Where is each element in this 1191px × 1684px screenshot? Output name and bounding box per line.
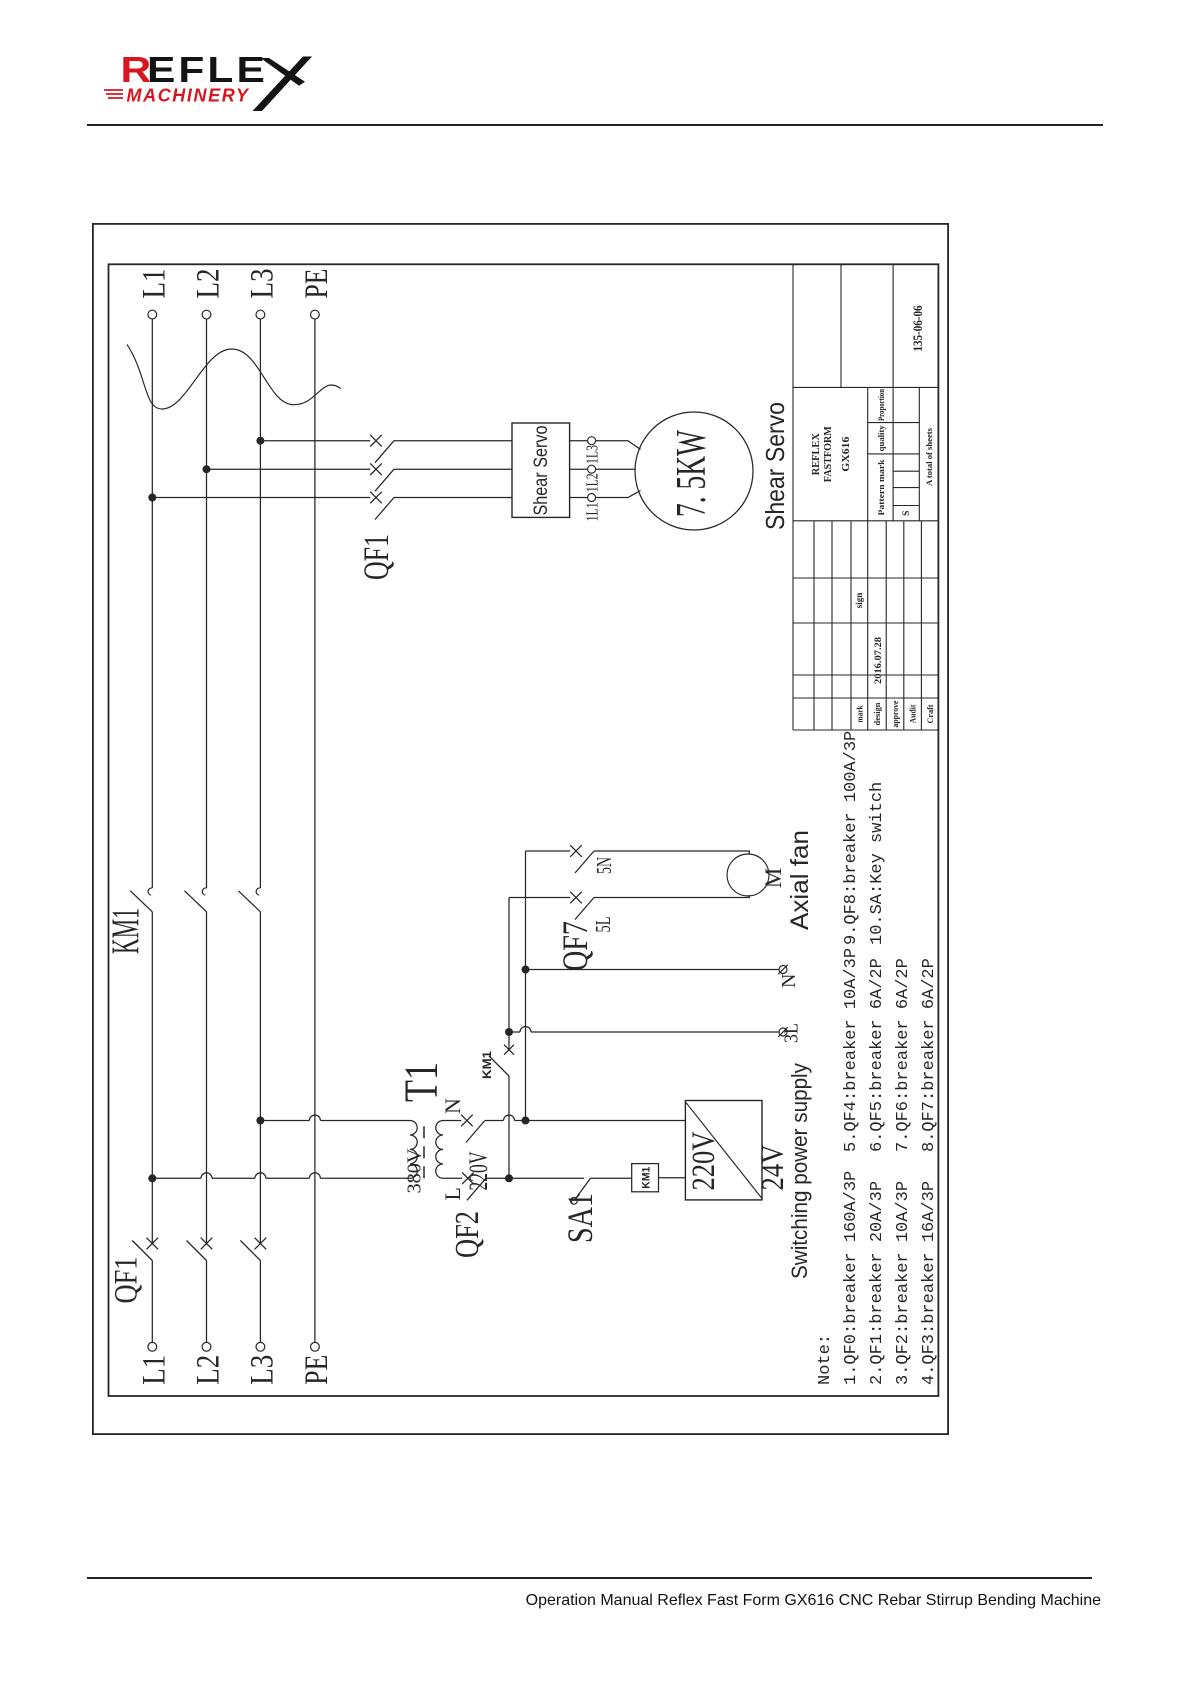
svg-text:Craft: Craft (925, 704, 935, 723)
supply cable wave break symbol (127, 345, 341, 410)
svg-text:L1: L1 (136, 269, 172, 299)
node tap T1 primary on L3 (256, 1117, 264, 1125)
svg-text:2.QF1:breaker 20A/3P: 2.QF1:breaker 20A/3P (868, 1181, 887, 1385)
wire box to ring 1L1 (570, 497, 588, 499)
left terminal L1 (148, 1342, 157, 1351)
wire 5L to fan (594, 895, 749, 898)
svg-text:5L: 5L (591, 917, 615, 933)
svg-text:mark: mark (855, 705, 865, 722)
svg-text:L3: L3 (244, 1355, 280, 1385)
svg-text:24V: 24V (754, 1145, 790, 1191)
node tap shear branch wire 1 (148, 494, 156, 502)
left terminal L3 (256, 1342, 265, 1351)
svg-text:Switching power supply: Switching power supply (787, 1063, 812, 1279)
breaker QF7 pole 5L (570, 892, 582, 904)
wire box to ring 1L2 (570, 468, 588, 470)
wire T1 primary right feed with hop (260, 1120, 309, 1122)
node N rail junction (522, 1117, 530, 1125)
terminal ring 1L1 (588, 494, 596, 502)
svg-text:1.QF0:breaker 160A/3P: 1.QF0:breaker 160A/3P (842, 1171, 861, 1385)
wire shear branch 2 to box (394, 468, 512, 470)
svg-text:220V: 220V (464, 1151, 493, 1190)
svg-text:4.QF3:breaker 16A/3P: 4.QF3:breaker 16A/3P (920, 1181, 939, 1385)
svg-text:7. 5KW: 7. 5KW (669, 430, 715, 517)
svg-text:380V: 380V (404, 1148, 426, 1194)
logo speed lines (104, 90, 123, 98)
wire SA1 upper (509, 1177, 584, 1179)
svg-text:L: L (440, 1187, 465, 1200)
left terminal L2 (202, 1342, 211, 1351)
svg-text:1L3: 1L3 (583, 445, 602, 464)
wire T1 secondary left to QF2 (443, 1177, 462, 1179)
svg-text:Shear Servo: Shear Servo (760, 402, 790, 530)
wire SA1 to KM1 coil (591, 1177, 632, 1179)
contactor KM1 pole L3 (238, 891, 260, 912)
box Shear Servo drive (512, 423, 570, 517)
svg-text:5.QF4:breaker 10A/3P: 5.QF4:breaker 10A/3P (842, 948, 861, 1152)
svg-text:7.QF6:breaker 6A/2P: 7.QF6:breaker 6A/2P (894, 958, 913, 1152)
svg-text:A total of sheets: A total of sheets (924, 427, 934, 486)
node 3L tap (505, 1028, 513, 1036)
wire 5N to fan (594, 851, 749, 854)
right terminal L1 (148, 310, 157, 319)
svg-text:MACHINERY: MACHINERY (127, 86, 250, 106)
node L rail junction (505, 1174, 513, 1182)
svg-text:220V: 220V (686, 1131, 722, 1190)
breaker QF1 pole shear 3 (370, 435, 382, 447)
wire shear branch 3 to box (394, 440, 512, 442)
wire L rail left segment (508, 1076, 510, 1178)
wire L rail right segment (508, 898, 510, 1050)
breaker QF2 pole L (462, 1173, 474, 1185)
svg-text:6.QF5:breaker 6A/2P: 6.QF5:breaker 6A/2P (868, 958, 887, 1152)
wire 5L from L rail corner (509, 897, 570, 899)
breaker QF2 pole N (461, 1115, 473, 1127)
wire L1 bus (151, 1260, 153, 1342)
breaker QF7 pole 5N (570, 845, 582, 857)
wire ring 1L2 to motor (596, 468, 636, 470)
terminal N (779, 966, 787, 974)
title block grid (793, 264, 938, 730)
wire N rail (525, 851, 527, 1121)
node tap shear branch wire 3 (256, 437, 264, 445)
svg-text:Audit: Audit (908, 704, 918, 723)
schematic drawing (rotated 90 deg CCW) (92, 223, 949, 1435)
transformer T1 secondary coil 220V (436, 1121, 443, 1179)
svg-text:QF2: QF2 (449, 1211, 486, 1258)
svg-text:Proportion: Proportion (876, 389, 886, 421)
motor axial fan circle (727, 854, 769, 896)
wire QF2 N to rail with hop over L rail (485, 1120, 504, 1122)
svg-text:135-06-06: 135-06-06 (910, 305, 925, 351)
wire L3 bus (259, 1260, 261, 1342)
svg-text:1L1: 1L1 (583, 502, 602, 521)
svg-text:8.QF7:breaker 6A/2P: 8.QF7:breaker 6A/2P (920, 958, 939, 1152)
wire 3L drop with hop over N rail (509, 1031, 520, 1033)
wire ring 1L1 to motor (596, 491, 641, 498)
svg-text:KM1: KM1 (641, 1167, 653, 1189)
svg-text:10.SA:Key switch: 10.SA:Key switch (868, 782, 887, 945)
contactor KM1 pole L2 (185, 891, 207, 912)
right terminal L3 (256, 310, 265, 319)
svg-text:FASTFORM: FASTFORM (823, 426, 834, 482)
svg-text:QF7: QF7 (555, 921, 595, 971)
switch SA1 key switch (576, 1178, 591, 1198)
svg-text:L3: L3 (244, 269, 280, 299)
svg-text:L1: L1 (136, 1355, 172, 1385)
right terminal L2 (202, 310, 211, 319)
terminal 3L (779, 1028, 787, 1036)
breaker QF1 pole shear 2 (370, 463, 382, 475)
breaker QF1 pole shear 1 (370, 492, 382, 504)
footer rule (87, 1577, 1092, 1579)
node tap shear branch wire 2 (203, 465, 211, 473)
wire N rail to power supply (526, 1120, 686, 1122)
svg-text:quality: quality (876, 425, 886, 452)
svg-text:N: N (778, 974, 800, 988)
wire L2 bus (206, 1260, 208, 1342)
svg-text:S: S (902, 511, 912, 516)
box switching power supply (685, 1101, 762, 1200)
wire ring 1L3 to motor (596, 441, 641, 450)
node N tap (522, 966, 530, 974)
svg-text:L2: L2 (191, 1355, 227, 1385)
svg-text:QF1: QF1 (109, 1257, 145, 1304)
svg-text:Shear Servo: Shear Servo (531, 426, 552, 516)
left terminal PE (311, 1342, 320, 1351)
svg-text:design: design (872, 702, 882, 725)
svg-text:L2: L2 (191, 269, 227, 299)
svg-text:REFLEX: REFLEX (811, 433, 822, 475)
svg-text:9.QF8:breaker 100A/3P: 9.QF8:breaker 100A/3P (842, 731, 861, 945)
svg-text:5N: 5N (592, 857, 616, 874)
contactor KM1 pole L1 (130, 891, 152, 912)
svg-text:N: N (440, 1098, 465, 1114)
drawing outer border frame (93, 224, 948, 1434)
wire QF2 L to rail (486, 1177, 509, 1179)
svg-text:PE: PE (299, 1355, 335, 1385)
breaker QF1 pole L1 (147, 1238, 159, 1250)
terminal ring 1L2 (588, 465, 596, 473)
wire 5N from N rail corner (526, 850, 571, 852)
svg-text:3L: 3L (781, 1023, 803, 1043)
svg-text:approve: approve (890, 700, 900, 727)
svg-text:sign: sign (854, 593, 864, 609)
wire box to ring 1L3 (570, 440, 588, 442)
wire T1 primary left feed with hops (152, 1177, 201, 1179)
svg-text:Note:: Note: (816, 1334, 835, 1385)
svg-text:M: M (761, 868, 786, 888)
svg-text:2016.07.28: 2016.07.28 (874, 637, 884, 684)
coil KM1 box (632, 1164, 659, 1192)
wire shear branch 1 to box (394, 497, 512, 499)
breaker QF1 pole L3 (255, 1238, 267, 1250)
power supply diagonal (685, 1102, 762, 1199)
logo REFLEX Machinery (100, 35, 380, 145)
svg-text:SA1: SA1 (560, 1193, 600, 1243)
transformer T1 core (423, 1121, 425, 1179)
svg-text:KM1: KM1 (104, 908, 147, 954)
transformer T1 primary coil 380V (410, 1121, 417, 1179)
node tap T1 primary on L1 (148, 1174, 156, 1182)
svg-text:Axial fan: Axial fan (786, 830, 814, 930)
svg-text:EFLE: EFLE (147, 50, 268, 90)
svg-text:T1: T1 (395, 1062, 448, 1102)
wire shear branch 1 upper (152, 497, 370, 499)
wire PE bus (314, 319, 316, 1342)
logo X strokes (253, 57, 313, 112)
logo word REFLEX (121, 50, 268, 90)
terminal ring 1L3 (588, 437, 596, 445)
svg-text:3.QF2:breaker 10A/3P: 3.QF2:breaker 10A/3P (894, 1181, 913, 1385)
svg-text:1L2: 1L2 (583, 473, 602, 492)
svg-text:KM1: KM1 (482, 1050, 494, 1079)
wire shear branch 2 upper (207, 468, 371, 470)
wire N drop (526, 969, 780, 971)
footer text (0, 1592, 1101, 1610)
wire shear branch 3 upper (260, 440, 370, 442)
wire T1 secondary right to QF2 (443, 1120, 461, 1122)
contact KM1 auxiliary (504, 1045, 514, 1055)
svg-text:QF1: QF1 (356, 534, 396, 580)
wire KM1 coil to power supply (659, 1177, 686, 1179)
motor shear servo 7.5KW circle (635, 412, 753, 530)
svg-text:Pattern mark: Pattern mark (876, 459, 886, 515)
svg-text:PE: PE (299, 269, 335, 299)
svg-text:GX616: GX616 (841, 437, 852, 472)
header rule (87, 124, 1103, 126)
right terminal PE (311, 310, 320, 319)
breaker QF1 pole L2 (201, 1238, 213, 1250)
drawing inner border frame (109, 264, 939, 1396)
